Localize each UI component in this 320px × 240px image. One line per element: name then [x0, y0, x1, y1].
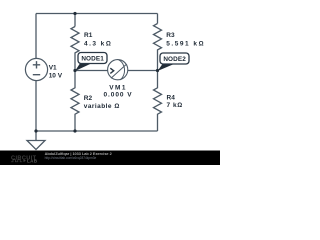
wire middle branch upper [74, 14, 76, 27]
svg-text:0.000 V: 0.000 V [103, 92, 132, 99]
node NODE1 label [75, 53, 107, 72]
svg-text:variable Ω: variable Ω [84, 103, 120, 110]
ground [27, 131, 45, 150]
node A junction top [73, 12, 76, 15]
wire bottom rail [36, 130, 158, 132]
resistor R2 value label [84, 95, 120, 110]
voltage source V1 [25, 58, 62, 80]
svg-text:V1: V1 [49, 65, 57, 72]
resistor R3 [154, 24, 162, 71]
wire top rail [36, 13, 158, 15]
node NODE2 label [158, 53, 190, 71]
svg-text:VM1: VM1 [109, 84, 127, 91]
svg-text:7 kΩ: 7 kΩ [167, 102, 183, 109]
resistor R1 value label [84, 32, 112, 47]
svg-text:5.591 kΩ: 5.591 kΩ [166, 40, 205, 47]
node NODE1 junction [73, 69, 76, 72]
resistor R4 [154, 71, 162, 132]
resistor R3 value label [166, 32, 205, 47]
svg-text:R1: R1 [84, 32, 93, 39]
svg-text:http://circuitlab.com/c6vq2874: http://circuitlab.com/c6vq2874kpm3e [45, 156, 97, 160]
wire right branch upper [157, 14, 159, 24]
svg-text:10 V: 10 V [49, 73, 63, 80]
resistor R1 [71, 27, 79, 71]
svg-text:R3: R3 [166, 32, 175, 39]
wire middle row [75, 70, 158, 72]
svg-text:R2: R2 [84, 95, 93, 102]
footer info text [45, 152, 112, 160]
svg-text:4.3 kΩ: 4.3 kΩ [84, 40, 112, 47]
wire left rail [35, 14, 37, 132]
voltmeter VM1 [103, 60, 132, 99]
svg-text:NODE1: NODE1 [81, 56, 104, 63]
svg-text:LAB: LAB [27, 159, 38, 164]
resistor R2 [71, 71, 79, 132]
footer bar [0, 151, 220, 166]
node B junction bottom middle [73, 129, 76, 132]
node C junction bottom left [34, 129, 37, 132]
svg-text:NODE2: NODE2 [163, 56, 186, 63]
node NODE2 junction [156, 69, 159, 72]
footer logo CIRCUIT LAB [11, 155, 38, 163]
svg-text:R4: R4 [167, 94, 176, 101]
resistor R4 value label [167, 94, 183, 108]
